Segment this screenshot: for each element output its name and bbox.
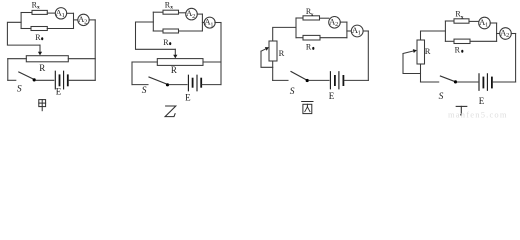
wire: node to A2 (丁) <box>497 33 500 35</box>
switch S blade (丙) <box>291 72 307 81</box>
ammeter A1 (丙) <box>351 25 363 37</box>
wire: Rx to A1 (丁) <box>469 20 479 22</box>
svg-text:1: 1 <box>62 12 65 19</box>
wire: left lower vertical (乙) <box>131 62 133 85</box>
node: right node vertical (丁) <box>496 23 498 41</box>
wire: wiper feed bracket (甲) <box>7 22 40 45</box>
wire: A2 to right node (乙) <box>197 13 202 15</box>
wire: node to A1 (乙) <box>202 22 204 24</box>
node: left node vertical (丙) <box>295 18 297 38</box>
wire: switch to battery (乙) <box>169 84 187 86</box>
wire: node to A2 (甲) <box>74 19 78 21</box>
svg-text:2: 2 <box>506 32 509 39</box>
wire: R0 to right node (甲) <box>47 28 73 30</box>
wire: battery to right rail (丁) <box>493 81 516 83</box>
node: right node vertical (丙) <box>346 22 348 38</box>
svg-text:R: R <box>171 65 177 75</box>
svg-text:1: 1 <box>210 22 213 28</box>
wire: bottom branch left (丙) <box>296 37 303 39</box>
wiper arrow onto rheostat R (甲) <box>39 45 41 52</box>
svg-text:R: R <box>39 63 45 73</box>
svg-text:2: 2 <box>335 21 338 28</box>
svg-text:R: R <box>425 46 431 56</box>
wire: right vertical rail (乙) <box>220 23 222 85</box>
resistor Rx (丙) <box>303 16 320 20</box>
rheostat R box (甲) <box>26 56 68 62</box>
svg-text:x: x <box>461 14 464 20</box>
svg-text:R: R <box>279 48 285 58</box>
wire: A1 to right node (丁) <box>490 22 496 24</box>
wire: A1 to right rail (丙) <box>363 30 368 32</box>
svg-text:S: S <box>439 92 444 102</box>
switch S hinge dot (丙) <box>306 79 309 82</box>
wiper arrow onto rheostat R (乙) <box>174 49 176 55</box>
resistor Rx (乙) <box>163 10 179 14</box>
battery E (丙) <box>329 72 331 89</box>
wire: rheostat top lead (丁) <box>421 31 446 40</box>
ammeter A1 (丁) <box>479 17 491 29</box>
wire: top branch left (甲) <box>21 12 32 14</box>
wire: A1 to right node (甲) <box>67 12 74 14</box>
ammeter A2 (丙) <box>329 17 341 29</box>
switch S stub (乙) <box>132 84 148 86</box>
switch S hinge dot (丁) <box>454 80 457 83</box>
rheostat R box (乙) <box>157 59 203 66</box>
wire: battery to right rail (甲) <box>69 79 96 81</box>
resistor R0 (乙) <box>163 29 179 33</box>
wire: right vertical rail (甲) <box>94 20 96 80</box>
ammeter A2 (丁) <box>500 28 512 40</box>
switch S blade (丁) <box>440 76 455 82</box>
wire: A2 to right rail (丁) <box>511 33 515 35</box>
wire: left lower vertical (甲) <box>7 59 9 81</box>
battery E (丁) <box>478 74 480 91</box>
switch S hinge dot (乙) <box>166 83 169 86</box>
svg-text:1: 1 <box>485 22 488 29</box>
svg-text:R: R <box>35 33 41 42</box>
wire: switch to battery (甲) <box>36 79 54 81</box>
label 丁 (hanzi) <box>456 106 467 115</box>
wire: rheostat bottom lead (丁) <box>420 64 422 82</box>
wire: wiper tail down and to lead (丙) <box>261 51 273 67</box>
svg-text:E: E <box>56 86 62 96</box>
switch S hinge dot (甲) <box>33 78 36 81</box>
rheostat R vertical box (丁) <box>417 40 425 64</box>
svg-text:x: x <box>170 5 173 11</box>
svg-text:2: 2 <box>192 13 195 20</box>
wire: A2 to right node (丙) <box>340 21 347 23</box>
resistor R0 (甲) <box>31 27 47 31</box>
wire: top branch left (丁) <box>445 20 454 22</box>
resistor Rx (甲) <box>32 10 47 14</box>
svg-text:manfen5.com: manfen5.com <box>448 109 508 119</box>
wire: bottom branch left (甲) <box>21 28 31 30</box>
wire: rheostat right lead (甲) <box>68 58 95 60</box>
wire: battery to right rail (乙) <box>202 84 221 86</box>
wire: A1 to right rail (乙) <box>215 22 221 24</box>
node: left node vertical (乙) <box>152 12 154 31</box>
switch S stub (丁) <box>421 81 439 83</box>
wire: bottom branch left (丁) <box>445 40 454 42</box>
wire: switch to battery (丙) <box>309 79 329 81</box>
resistor R0 (丙) <box>303 35 320 40</box>
svg-text:1: 1 <box>358 30 361 37</box>
wire: battery to right rail (丙) <box>344 79 368 81</box>
ammeter A1 (甲) <box>55 8 66 19</box>
svg-text:S: S <box>142 86 147 96</box>
wiper arrow (丁) <box>403 51 413 54</box>
wiper arrow (丙) <box>261 49 266 51</box>
svg-text:S: S <box>17 84 22 94</box>
ammeter A2 (乙) <box>186 8 198 20</box>
node: left node vertical (丁) <box>444 21 446 41</box>
wire: right vertical rail (丙) <box>367 31 369 80</box>
svg-text:E: E <box>185 92 191 102</box>
wire: top branch left (乙) <box>153 11 163 13</box>
wire: wiper feed bracket (乙) <box>136 22 176 49</box>
switch S blade (乙) <box>149 77 167 84</box>
svg-text:R: R <box>163 38 169 47</box>
wire: R0 to right node (丁) <box>470 40 497 42</box>
wire: Rx to A2 (乙) <box>179 12 186 14</box>
wire: switch to battery (丁) <box>457 81 478 83</box>
label 乙 (hanzi) <box>165 106 176 117</box>
node: right node vertical (甲) <box>73 13 75 28</box>
wire: Rx to A2 (丙) <box>320 17 329 19</box>
switch S stub (甲) <box>8 79 16 81</box>
label 丙 (hanzi) <box>302 102 313 114</box>
wire: top branch left (丙) <box>296 17 303 19</box>
svg-text:R: R <box>455 45 461 54</box>
resistor R0 (丁) <box>454 39 470 43</box>
wire: Rx to A1 (甲) <box>47 12 55 14</box>
node: right node vertical (乙) <box>201 14 203 31</box>
wire: wiper tail down and to lead (丁) <box>403 54 421 74</box>
wire: right vertical rail (丁) <box>515 34 517 83</box>
switch S stub (丙) <box>273 79 288 81</box>
battery E (甲) <box>54 71 56 89</box>
rheostat R vertical box (丙) <box>269 41 277 61</box>
wire: rheostat left lead (乙) <box>132 61 157 63</box>
svg-text:S: S <box>290 87 295 97</box>
battery E (乙) <box>187 75 189 91</box>
label 甲 (hanzi) <box>39 100 46 111</box>
svg-text:2: 2 <box>84 19 87 26</box>
wire: bottom branch left (乙) <box>153 30 163 32</box>
wire: rheostat top lead (丙) <box>273 27 296 41</box>
resistor Rx (丁) <box>454 19 469 23</box>
svg-text:E: E <box>479 96 485 106</box>
wire: R0 to right node (乙) <box>179 30 203 32</box>
ammeter A2 (甲) <box>78 14 89 25</box>
svg-text:E: E <box>329 91 335 101</box>
switch S blade (甲) <box>19 72 34 79</box>
wire: node to A1 (丙) <box>347 30 352 32</box>
node: left node vertical (甲) <box>20 13 22 29</box>
wire: A2 to right rail (甲) <box>89 19 95 21</box>
svg-text:x: x <box>311 12 314 18</box>
ammeter A1 (乙) <box>204 17 215 28</box>
wire: rheostat bottom lead (丙) <box>272 61 274 80</box>
svg-text:x: x <box>37 5 40 11</box>
svg-text:R: R <box>306 42 312 51</box>
wire: rheostat right lead (乙) <box>203 61 221 63</box>
wire: R0 to right node (丙) <box>320 37 347 39</box>
wire: rheostat left lead (甲) <box>8 58 27 60</box>
